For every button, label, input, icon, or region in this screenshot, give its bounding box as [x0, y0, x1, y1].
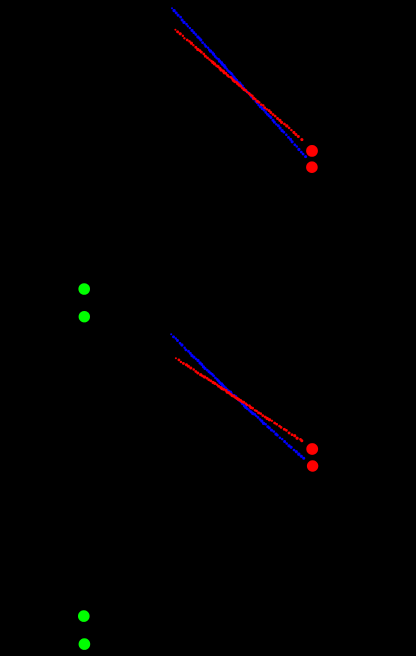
panel-2 green dot lower — [79, 638, 91, 650]
panel-1 green dot upper — [78, 283, 90, 295]
panel-2 red target dot lower — [307, 460, 318, 471]
trace: panel-2 blue trajectory — [170, 333, 305, 459]
trace: panel-2 red trajectory — [175, 357, 303, 442]
panel-2 green dot upper — [78, 610, 90, 622]
panel-1 red target dot upper — [306, 145, 318, 157]
trace: panel-1 blue trajectory — [171, 7, 307, 158]
panel-1 red target dot lower — [306, 161, 318, 173]
panel-1 green dot lower — [79, 311, 90, 322]
trace: panel-1 red trajectory — [174, 29, 303, 141]
panel-2 red target dot upper — [306, 443, 318, 455]
